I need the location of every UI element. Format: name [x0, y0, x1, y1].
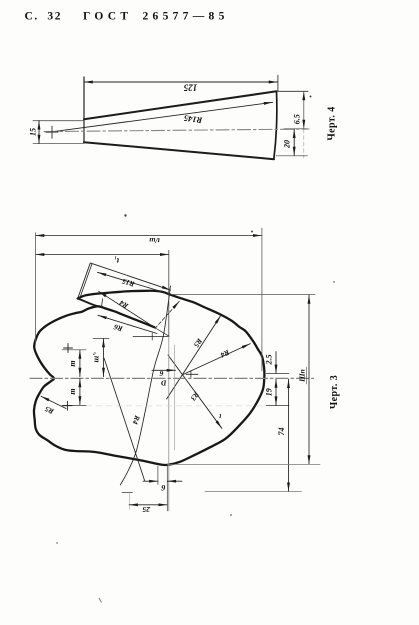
upper lobe center cross — [64, 344, 73, 353]
figure 4 (top wedge) — [29, 75, 338, 159]
radius R4 prime line — [183, 344, 250, 375]
svg-text:С. 32: С. 32 — [25, 11, 63, 23]
Shp dim line — [308, 295, 310, 464]
right extension line x262 — [261, 228, 263, 371]
svg-text:t₁: t₁ — [114, 256, 119, 265]
scan specks — [56, 96, 335, 603]
dimension 15 extension lines — [33, 121, 84, 144]
tick for 25 left — [122, 492, 133, 494]
radius R5 lower lobe line — [41, 396, 66, 408]
svg-text:20: 20 — [282, 140, 291, 149]
flap left edge — [78, 263, 91, 298]
Shp label underline — [306, 367, 308, 384]
Shp top extension — [171, 294, 315, 296]
svg-text:15: 15 — [29, 128, 38, 136]
hub tick cross — [151, 333, 153, 340]
sh-prime dim line — [103, 339, 105, 377]
flap top edge with arrow — [91, 263, 168, 289]
hub vertical extension x169 — [168, 250, 170, 336]
svg-text:ш': ш' — [92, 353, 101, 363]
main outline (mitten) — [34, 291, 264, 465]
m lower tick — [62, 404, 86, 406]
svg-text:Черт. 3: Черт. 3 — [329, 375, 340, 409]
svg-text:74: 74 — [277, 428, 286, 436]
svg-text:25: 25 — [142, 505, 151, 514]
m upper tick — [62, 349, 86, 351]
svg-text:6.5: 6.5 — [293, 114, 302, 124]
radius R4b line in flap — [99, 291, 155, 327]
slant construction line SL2 (R4 line) — [104, 358, 145, 481]
svg-text:m: m — [68, 360, 77, 366]
svg-text:Черт. 4: Черт. 4 — [327, 106, 338, 140]
hub vertical lower part — [168, 337, 170, 511]
figure 3 (bottom mitten) — [30, 228, 340, 514]
centerline horizontal — [30, 377, 314, 379]
bottom left ext x157.9 — [157, 466, 159, 485]
wedge bottom edge — [84, 142, 274, 159]
flap bottom edge — [78, 299, 99, 307]
apex center cross — [46, 126, 58, 138]
lower lobe center cross — [63, 401, 72, 410]
extension y491.6 — [205, 491, 302, 493]
tick y373.4 — [266, 372, 289, 374]
wedge right edge — [274, 91, 277, 159]
svg-text:ГОСТ 26577—85: ГОСТ 26577—85 — [83, 11, 229, 23]
m upper dim line — [79, 350, 81, 377]
left extension line — [35, 233, 37, 344]
top dim outer line — [36, 235, 262, 237]
tick on flap edge — [102, 299, 103, 307]
dim 6 bottom left arrow — [143, 480, 158, 482]
wedge top edge — [84, 91, 277, 119]
dim 2.5 line — [275, 352, 277, 374]
dashed radius arrow to arc start — [155, 301, 179, 328]
dimension 15 line — [38, 121, 40, 144]
svg-text:6: 6 — [159, 369, 163, 378]
hub horizontal thin line — [133, 336, 169, 338]
dim 6 bottom right arrow — [167, 480, 182, 482]
centerline — [44, 129, 309, 132]
gray vertical x174.7 — [174, 345, 176, 450]
svg-text:Шп: Шп — [297, 369, 306, 383]
flap top edge arrowhead — [167, 289, 170, 290]
svg-text:2.5: 2.5 — [265, 355, 274, 366]
radius R13 line — [168, 355, 222, 428]
long slant construction curve SL1 — [120, 286, 170, 485]
svg-text:D: D — [161, 378, 168, 387]
top dim inner line — [36, 254, 169, 256]
extension y464.4 — [168, 463, 321, 465]
diameter callout arrow — [152, 369, 176, 371]
bottom right extension tick — [276, 155, 308, 157]
radius R15 line — [98, 272, 171, 294]
dimension 125 line — [84, 81, 278, 83]
svg-text:19: 19 — [265, 388, 274, 396]
dimension 6.5 line — [303, 92, 305, 129]
faint line y406 — [86, 405, 266, 407]
wedge left edge — [83, 77, 85, 142]
R145 radius line — [52, 102, 273, 132]
dim 25 line — [129, 504, 167, 506]
svg-text:m: m — [68, 388, 77, 394]
flap left edge second line — [80, 264, 92, 299]
small center tick right of hub — [186, 371, 198, 378]
bottom right ext continues from low point — [166, 465, 168, 511]
m lower dim line — [79, 378, 81, 405]
dim 19 line — [275, 379, 277, 405]
top right extension line — [277, 90, 309, 92]
radius R6 line — [98, 315, 157, 333]
dimension 6.5 faint continuation — [303, 129, 305, 158]
header page text — [25, 11, 229, 23]
tick y405.6 — [266, 405, 289, 407]
svg-text:125: 125 — [183, 82, 197, 92]
svg-text:t/ш: t/ш — [149, 236, 159, 245]
svg-text:6: 6 — [161, 483, 165, 492]
dimension 125 right extension — [277, 75, 279, 91]
dimension 20 line — [293, 129, 295, 155]
slit to hub connector — [155, 328, 170, 337]
sh-prime tick — [93, 338, 109, 340]
radius R5 line from hub — [167, 316, 221, 399]
25 left ext vertical — [128, 494, 130, 510]
tick at 6.5/20 boundary — [284, 128, 307, 130]
dim 74 line — [288, 379, 290, 491]
